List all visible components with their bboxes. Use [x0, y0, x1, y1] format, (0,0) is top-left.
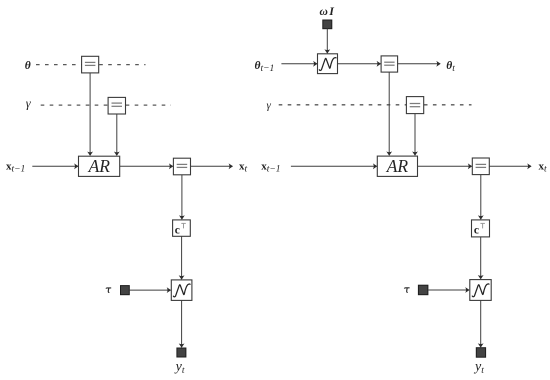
- wire N to equals box (theta row): [338, 61, 382, 67]
- svg-text:c: c: [175, 224, 180, 236]
- AR block (left): [79, 156, 120, 177]
- node x_t label (left): [239, 160, 248, 174]
- svg-text:xt−1: xt−1: [6, 160, 25, 174]
- observed square y_t (right): [476, 348, 485, 358]
- wire gamma dashed left segment: [41, 104, 108, 106]
- wire gamma dashed right segment (right diagram): [424, 104, 472, 106]
- wire AR to equals box (left x_t row): [120, 163, 174, 169]
- wire tau to N (right): [428, 287, 470, 293]
- wire theta_{t-1} to N: [281, 61, 317, 67]
- equals box U5 (gamma deterministic, right): [406, 97, 423, 114]
- AR block (right): [377, 156, 417, 177]
- node x_t label (right): [539, 160, 548, 174]
- observed square tau (left): [121, 286, 130, 295]
- svg-text:θt−1: θt−1: [255, 60, 275, 74]
- equals box U6 (x_t deterministic, right): [472, 158, 489, 175]
- wire theta dashed right segment: [99, 64, 145, 66]
- wire N down to y_t square (right): [478, 300, 484, 347]
- svg-text:I: I: [328, 4, 335, 18]
- wire tau to N (left): [129, 287, 171, 293]
- wire theta box down to AR: [87, 73, 93, 156]
- wire gamma box down to AR (right): [412, 114, 418, 156]
- equals box U2 (gamma deterministic, left): [108, 97, 125, 114]
- wire gamma box down to AR: [114, 114, 120, 156]
- wire equals box to theta_t label: [398, 61, 441, 67]
- observed square omega-I: [323, 20, 332, 29]
- wire c^T down to N (right): [478, 237, 484, 280]
- node theta_t label: [446, 60, 455, 74]
- wire x_{t-1} to AR: [32, 163, 78, 169]
- node theta_{t-1} label: [255, 60, 275, 74]
- node tau label (right): [404, 288, 409, 292]
- wire c^T down to N (left): [179, 236, 185, 279]
- observed square tau (right): [418, 285, 428, 295]
- wire gamma dashed left segment (right diagram): [279, 104, 407, 106]
- svg-text:θt: θt: [446, 60, 455, 74]
- node x_{t-1} label (right): [261, 160, 280, 174]
- wire equals box down to c^T (right): [478, 175, 484, 220]
- svg-text:yt: yt: [473, 360, 484, 376]
- wire theta dashed left segment: [36, 64, 82, 66]
- c-transpose block (left): [173, 220, 191, 236]
- equals box U3 (x_t deterministic, left): [173, 158, 190, 175]
- node y_t label (left): [174, 360, 185, 376]
- svg-text:γ: γ: [26, 97, 32, 111]
- wire AR to equals box (right x_t row): [418, 163, 473, 169]
- svg-text:xt−1: xt−1: [261, 160, 280, 174]
- node y_t label (right): [473, 360, 484, 376]
- svg-text:xt: xt: [239, 160, 248, 174]
- svg-text:γ: γ: [267, 99, 272, 111]
- wire N down to y_t square (left): [179, 300, 185, 347]
- node theta label: [25, 60, 31, 72]
- svg-text:AR: AR: [386, 156, 409, 176]
- svg-text:c: c: [474, 224, 479, 236]
- svg-text:ω: ω: [320, 6, 328, 18]
- node tau label (left): [106, 288, 111, 292]
- normal distribution block N (observation, right): [470, 280, 491, 301]
- node gamma label (right): [267, 99, 272, 111]
- observed square y_t (left): [177, 348, 186, 357]
- wire equals box to x_t label (right): [489, 163, 531, 169]
- c-transpose block (right): [472, 220, 490, 237]
- equals box U1 (theta deterministic, left): [82, 56, 99, 73]
- equals box U4 (theta_t deterministic, right): [381, 56, 398, 72]
- node omega-I label: [320, 4, 336, 18]
- svg-text:xt: xt: [539, 160, 548, 174]
- wire equals box down to c^T (left): [179, 175, 185, 220]
- normal distribution block N (theta transition): [318, 54, 338, 74]
- node gamma label (left): [26, 97, 32, 111]
- wire gamma dashed right segment: [126, 104, 171, 106]
- svg-text:AR: AR: [88, 156, 111, 176]
- wire equals box to x_t label (left): [191, 163, 234, 169]
- svg-text:yt: yt: [174, 360, 185, 376]
- wire theta_t box down to AR (right): [386, 72, 392, 156]
- wire x_{t-1} to AR (right): [291, 163, 377, 169]
- node x_{t-1} label (left): [6, 160, 25, 174]
- svg-text:θ: θ: [25, 60, 31, 72]
- normal distribution block N (left): [171, 280, 192, 301]
- wire omega-I square down to N: [324, 29, 330, 54]
